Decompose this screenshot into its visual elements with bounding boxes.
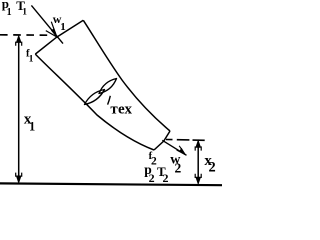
svg-text:тех: тех (110, 101, 132, 117)
label p2 T2 (outlet state) (144, 162, 168, 185)
dimension arrow x2 (height of section 2) (195, 141, 201, 184)
label f1 (26, 49, 34, 65)
label w2 (170, 153, 181, 176)
duct inlet face (f1 cross-section) (35, 20, 83, 54)
duct upper edge (83, 20, 170, 131)
arrow w2 head (177, 146, 186, 155)
svg-text:1: 1 (29, 119, 35, 133)
svg-text:1: 1 (29, 54, 34, 65)
label x1 (24, 111, 35, 133)
label w1 (53, 12, 66, 33)
svg-text:1: 1 (7, 7, 12, 18)
svg-text:1: 1 (22, 7, 27, 17)
label x2 (204, 153, 215, 176)
arrow w1 shaft (inlet velocity) (31, 5, 63, 43)
dashed datum line at inlet level (0, 34, 48, 36)
ground reference line (0, 183, 222, 185)
duct outlet face (f2 cross-section) (154, 131, 170, 150)
arrow w2 shaft (outlet velocity) (162, 140, 186, 155)
duct lower edge (35, 54, 154, 150)
arrow w1 head (46, 22, 57, 37)
script l (technical work) symbol: two crossed loops (85, 79, 117, 105)
dashed datum line at outlet level (166, 139, 205, 142)
label f2 (149, 151, 157, 167)
svg-text:2: 2 (175, 160, 182, 175)
dimension arrow x1 (height of section 1) (16, 36, 22, 182)
svg-text:2: 2 (149, 171, 155, 185)
label p1 T1 (inlet state) (2, 0, 27, 18)
svg-text:2: 2 (209, 160, 216, 176)
svg-text:2: 2 (163, 171, 169, 185)
